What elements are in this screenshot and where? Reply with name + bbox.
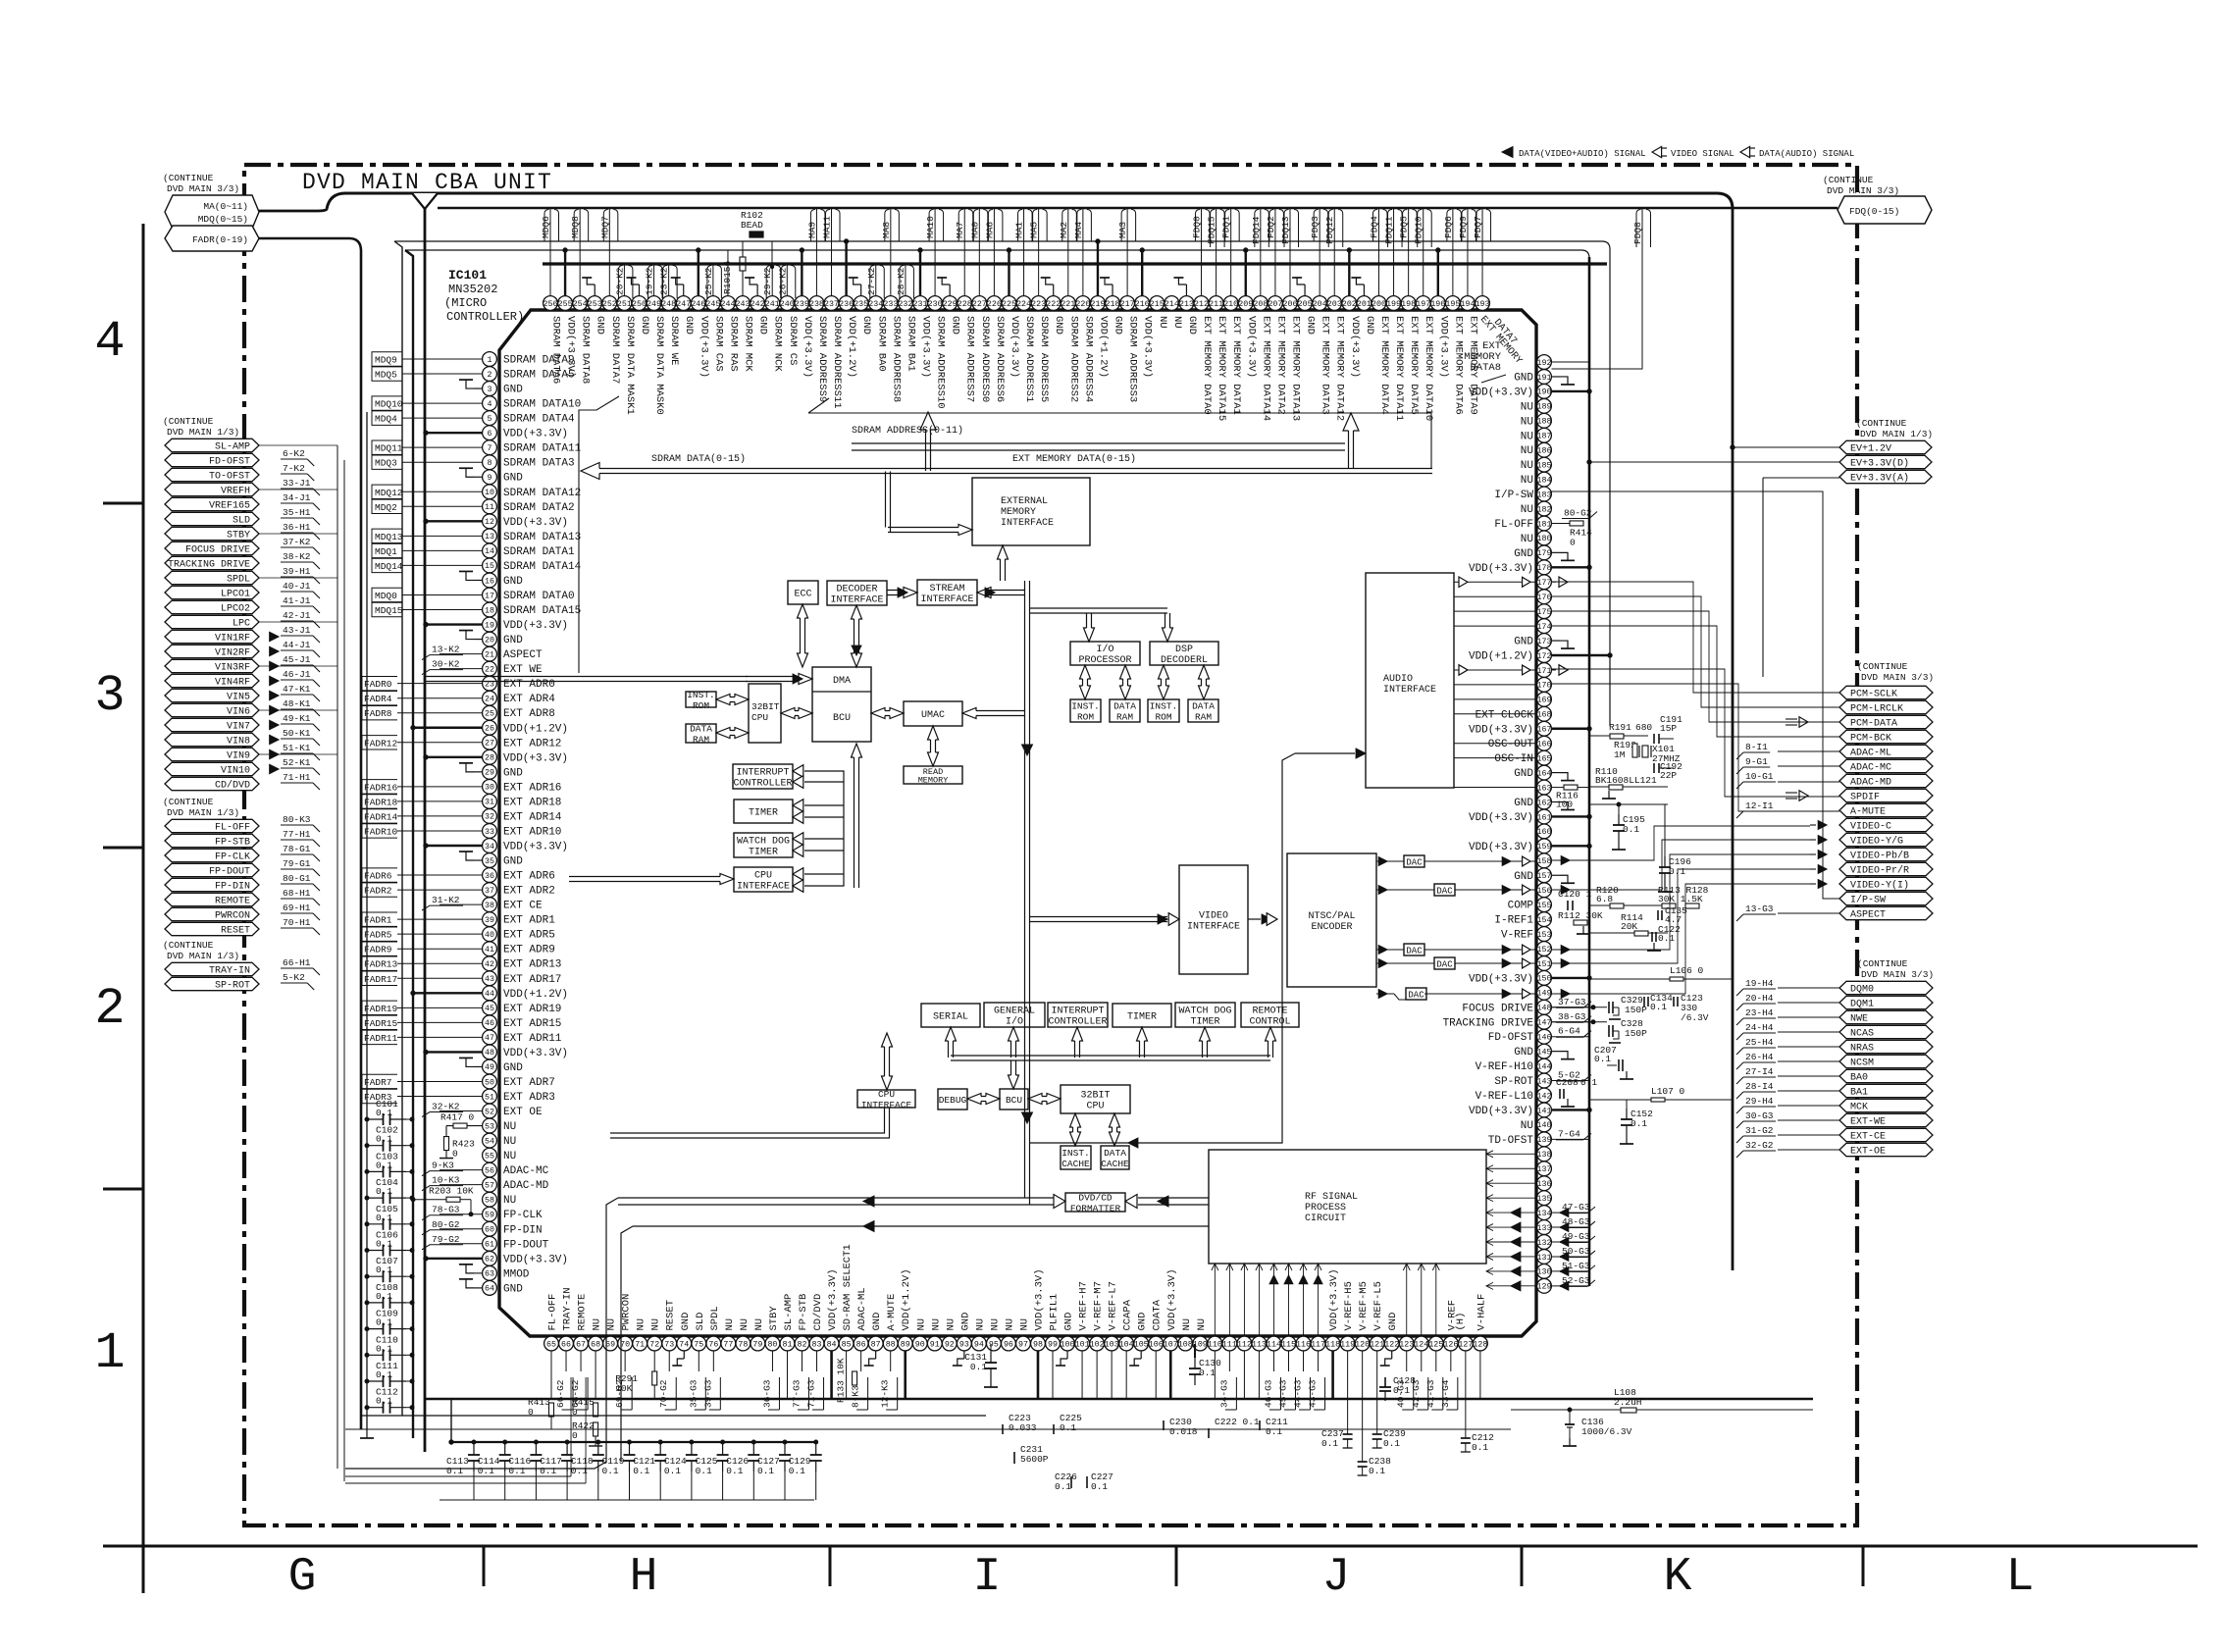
IC101 pin 106 CDATA [1149,1299,1164,1399]
svg-text:NU: NU [1521,1120,1533,1132]
resistor R423 0 (pin54) [440,1137,475,1160]
block VIDEO INTERFACE [1179,865,1248,974]
svg-text:DVD MAIN CBA UNIT: DVD MAIN CBA UNIT [302,170,552,195]
svg-text:DATA(AUDIO) SIGNAL: DATA(AUDIO) SIGNAL [1759,149,1854,159]
left flag SPDL [165,566,320,586]
svg-text:NU: NU [974,1318,986,1331]
svg-text:VDD(+1.2V): VDD(+1.2V) [901,1268,912,1330]
bus arrow EXT MEM IF bottom [998,545,1009,581]
svg-text:89: 89 [901,1340,910,1349]
IC101 pin 43 EXT ADR17 [362,971,561,986]
IC101 pin 120 V-REF-M5 [1355,1281,1370,1399]
svg-text:9: 9 [488,474,492,483]
svg-text:3: 3 [488,386,492,394]
IC101 pin 65 FL-OFF [544,1294,559,1399]
capacitor C207 0.1 [1594,1045,1633,1079]
left flag RESET [165,917,320,937]
svg-text:PCM-BCK: PCM-BCK [1850,734,1891,745]
svg-text:23-K2: 23-K2 [659,267,670,295]
IC101 pin 229 GND [937,278,961,335]
svg-text:SDRAM DATA MASK1: SDRAM DATA MASK1 [624,316,636,415]
svg-text:ADAC-MD: ADAC-MD [503,1180,549,1192]
svg-text:27-I4: 27-I4 [1745,1066,1774,1077]
svg-text:VIN3RF: VIN3RF [215,663,250,674]
wires NTSC/PAL to DACs and pins [1376,856,1536,1000]
svg-text:ADAC-ML: ADAC-ML [856,1287,868,1330]
wire PCM-BCK [1552,626,1840,737]
svg-text:24-H4: 24-H4 [1745,1022,1774,1033]
capacitor C211 0.1 [1260,1417,1288,1437]
svg-text:189: 189 [1537,403,1552,412]
svg-text:GND: GND [1186,316,1198,335]
svg-text:TRAY-IN: TRAY-IN [209,966,250,977]
resistor R120 6.8 [1589,885,1668,908]
svg-text:DQM1: DQM1 [1850,1000,1874,1010]
capacitor C238 0.1 [1358,1399,1391,1476]
svg-text:218: 218 [1106,300,1120,309]
oscillator R191 680 [1589,722,1652,739]
svg-text:VIDEO SIGNAL: VIDEO SIGNAL [1671,149,1734,159]
svg-text:G: G [288,1551,317,1604]
svg-text:117: 117 [1311,1340,1325,1349]
svg-text:0.1: 0.1 [970,1362,987,1372]
svg-text:TIMER: TIMER [749,808,778,819]
capacitor C223 0.033 [998,1413,1037,1434]
svg-text:65: 65 [546,1340,556,1349]
IC101 pin 181 FL-OFF [1494,516,1551,531]
svg-text:CONTROLLER: CONTROLLER [1048,1017,1107,1028]
svg-text:78-G1: 78-G1 [283,844,311,854]
right flag DQM1 [1736,993,1933,1010]
svg-text:45-G3: 45-G3 [1278,1379,1289,1408]
IC101 pin 122 GND [1380,1313,1400,1366]
block DATA RAM c [1188,699,1218,723]
svg-text:DATA: DATA [690,724,712,735]
svg-text:25-H4: 25-H4 [1745,1037,1774,1048]
svg-text:MDQ6: MDQ6 [541,216,551,238]
svg-text:SDRAM MCK: SDRAM MCK [743,316,754,372]
IC101 pin 116 (wire) [1293,1336,1311,1410]
svg-text:123: 123 [1399,1340,1414,1349]
svg-text:TD-OFST: TD-OFST [1488,1135,1534,1147]
svg-text:217: 217 [1120,300,1135,309]
svg-text:131: 131 [1537,1254,1552,1263]
IC101 pin 21 ASPECT [422,645,543,662]
svg-text:SDRAM ADDRESS5: SDRAM ADDRESS5 [1038,316,1050,402]
block DAC3 [1404,944,1424,956]
svg-text:1M: 1M [1614,749,1626,760]
svg-text:EXT MEMORY DATA14: EXT MEMORY DATA14 [1260,316,1271,421]
IC101 pin 160 (wire) [1537,824,1552,839]
wire PCM-DATA [1552,611,1840,722]
svg-text:NRAS: NRAS [1850,1044,1874,1055]
svg-text:GND: GND [1305,316,1317,335]
svg-text:SDRAM DATA9: SDRAM DATA9 [503,355,575,367]
svg-text:47-G3: 47-G3 [1562,1202,1590,1213]
IC101 pin 139 TD-OFST [1488,1128,1591,1147]
svg-text:0.1: 0.1 [571,1466,588,1476]
IC101 pin 34 VDD(+3.3V) [424,839,568,853]
IC101 pin 142 V-REF-L10 [1475,1088,1552,1103]
wire DQM flag codes [1778,988,1839,1150]
svg-text:VDD(+3.3V): VDD(+3.3V) [503,1048,568,1059]
svg-text:19-H4: 19-H4 [1745,978,1774,989]
svg-text:0.1: 0.1 [696,1466,712,1476]
svg-text:BK1608LL121: BK1608LL121 [1595,775,1657,786]
svg-text:NU: NU [503,1121,516,1133]
IC101 pin 223 SDRAM ADDRESS5 [1029,209,1051,402]
IC101 pin 55 NU [483,1148,517,1162]
svg-text:7-G4: 7-G4 [1558,1128,1580,1139]
svg-text:FADR17: FADR17 [364,974,397,985]
inductor R110 BK1608LL121 [1589,766,1668,799]
svg-text:GND: GND [1514,871,1533,883]
svg-text:VDD(+3.3V): VDD(+3.3V) [503,429,568,440]
svg-text:EXT CE: EXT CE [503,901,543,912]
svg-text:150P: 150P [1625,1028,1647,1039]
svg-text:INTERRUPT: INTERRUPT [736,768,789,779]
svg-text:VIDEO-Y/G: VIDEO-Y/G [1850,836,1903,848]
svg-text:93: 93 [959,1340,969,1349]
svg-text:VDD(+3.3V): VDD(+3.3V) [503,841,568,852]
IC101 pin 133 (wire) [1537,1216,1595,1234]
svg-text:100: 100 [1556,800,1573,810]
svg-text:SDRAM ADDRESS9: SDRAM ADDRESS9 [816,316,828,402]
svg-text:197: 197 [1416,300,1430,309]
IC101 pin 90 NU [912,1318,927,1351]
svg-text:FADR6: FADR6 [364,871,392,882]
svg-text:242: 242 [751,300,765,309]
svg-text:INTERFACE: INTERFACE [830,595,883,606]
svg-text:SDRAM ADDRESS4: SDRAM ADDRESS4 [1082,316,1094,402]
IC101 pin 23 EXT ADR0 [362,676,555,691]
IC101 pin 84 VDD(+3.3V) [824,1268,839,1399]
IC101 pin 249 SDRAM DATA MASK0 [645,265,666,415]
block INTERRUPT CONTROLLER a [733,764,793,790]
IC101 pin 248 SDRAM WE [659,265,681,365]
vertical bus x=374 (gnd rail) [360,412,374,1438]
svg-text:121: 121 [1370,1340,1384,1349]
svg-text:99: 99 [1048,1340,1058,1349]
svg-text:0.1: 0.1 [376,1343,392,1354]
svg-text:I/P-SW: I/P-SW [1850,895,1886,906]
svg-text:R10156: R10156 [722,260,733,294]
svg-text:67: 67 [576,1340,586,1349]
svg-text:220: 220 [1075,300,1090,309]
svg-text:26: 26 [485,725,494,734]
svg-text:216: 216 [1135,300,1150,309]
capacitor C134 0.1 [1644,993,1673,1012]
svg-text:199: 199 [1386,300,1401,309]
IC101 pin 28 VDD(+3.3V) [424,749,568,764]
svg-text:83: 83 [812,1340,822,1349]
svg-text:133: 133 [1537,1224,1552,1233]
svg-text:ADAC-MD: ADAC-MD [1850,778,1891,789]
svg-text:9-G1: 9-G1 [1745,756,1768,767]
IC101 pin 121 V-REF-L5 [1370,1281,1384,1399]
svg-text:FDQ10: FDQ10 [1414,216,1424,244]
svg-text:0.1: 0.1 [1266,1426,1282,1437]
svg-text:FDQ12: FDQ12 [1324,216,1335,244]
capacitor C119 0.1 [602,1440,636,1500]
svg-text:95: 95 [989,1340,999,1349]
svg-text:84: 84 [827,1340,837,1349]
svg-text:VDD(+3.3V): VDD(+3.3V) [503,517,568,529]
inductor L106 0 [1589,965,1733,981]
svg-text:CONTROLLER): CONTROLLER) [446,310,524,324]
svg-text:153: 153 [1537,931,1552,940]
svg-text:SPDL: SPDL [227,575,250,586]
svg-text:FP-DOUT: FP-DOUT [503,1239,549,1251]
IC101 pin 250 GND [626,278,650,335]
svg-text:70: 70 [620,1340,630,1349]
svg-text:80: 80 [767,1340,777,1349]
block EXTERNAL MEMORY INTERFACE [972,478,1090,545]
svg-text:10: 10 [485,489,494,497]
svg-text:254: 254 [573,300,588,309]
svg-text:SDRAM CAS: SDRAM CAS [712,316,724,372]
svg-text:VDD(+3.3V): VDD(+3.3V) [920,316,932,378]
FDQ8 wire pin192 [1552,209,1651,369]
wires pins 168-163 to audio [1454,714,1536,788]
svg-text:103: 103 [1105,1340,1119,1349]
svg-text:NU: NU [503,1136,516,1148]
svg-text:56: 56 [485,1166,494,1175]
svg-text:10-G1: 10-G1 [1745,771,1774,782]
svg-text:FADR5: FADR5 [364,930,392,941]
svg-text:GND: GND [1053,316,1064,335]
svg-text:(CONTINUE: (CONTINUE [163,797,214,807]
svg-text:8: 8 [488,459,492,468]
bus BCU b up arrow [1009,1060,1019,1089]
svg-text:0.1: 0.1 [1472,1442,1488,1453]
svg-text:147: 147 [1537,1019,1552,1028]
svg-text:1: 1 [94,1324,125,1382]
IC101 pin 102 V-REF-M7 [1090,1281,1105,1399]
IC101 pin 87 GND [864,1313,884,1366]
row label 2 [94,980,125,1038]
IC101 pin 66 TRAY-IN [555,1287,574,1410]
IC101 pin 172 VDD(+1.2V) [1469,648,1612,663]
IC101 pin 255 VDD(+3.3V) [558,248,577,378]
svg-text:FADR0: FADR0 [364,679,392,690]
block UMAC [904,701,962,726]
right flag A-MUTE [1736,800,1933,818]
svg-text:248: 248 [661,300,676,309]
IC101 pin 235 GND [849,278,873,335]
svg-text:0.1: 0.1 [1060,1422,1076,1433]
IC101 pin 213 GND [1173,278,1198,335]
IC101 pin 89 VDD(+1.2V) [898,1268,912,1399]
left flag FOCUS DRIVE [165,537,320,556]
IC101 pin 150 VDD(+3.3V) [1469,971,1591,986]
block SERIAL [921,1004,980,1027]
IC101 pin 49 GND [459,1058,523,1074]
wire EV+1.2V flag [1731,445,1839,449]
svg-text:0.1: 0.1 [376,1291,392,1302]
svg-text:(CONTINUE: (CONTINUE [1856,418,1907,429]
video to ntsc arrow [1248,913,1277,926]
svg-text:11: 11 [485,503,494,512]
svg-text:59: 59 [485,1212,494,1220]
IC101 pin 242 GND [745,278,769,335]
svg-text:LPCO1: LPCO1 [221,590,250,600]
svg-text:EXT ADR10: EXT ADR10 [503,826,561,838]
column label I [973,1551,1002,1604]
svg-text:36-G3: 36-G3 [761,1379,772,1408]
svg-text:MDQ4: MDQ4 [375,414,397,425]
block I/O PROCESSOR [1070,642,1140,666]
svg-text:GND: GND [1514,798,1533,809]
svg-text:20: 20 [485,636,494,645]
svg-text:51-K1: 51-K1 [283,743,311,753]
svg-text:DVD MAIN 1/3): DVD MAIN 1/3) [167,807,239,818]
svg-text:CIRCUIT: CIRCUIT [1305,1213,1346,1224]
svg-text:0.018: 0.018 [1169,1426,1198,1437]
svg-text:SERIAL: SERIAL [933,1012,968,1023]
svg-text:INST.: INST. [687,690,715,700]
svg-text:EXT ADR5: EXT ADR5 [503,930,555,942]
svg-text:246: 246 [691,300,705,309]
svg-text:30-K2: 30-K2 [432,659,460,670]
svg-text:EXT MEMORY DATA13: EXT MEMORY DATA13 [1290,316,1302,421]
svg-text:137: 137 [1537,1165,1552,1174]
svg-text:EXT ADR4: EXT ADR4 [503,694,555,705]
svg-text:STREAM: STREAM [929,584,964,594]
svg-text:69-H1: 69-H1 [283,903,311,913]
IC101 pin 147 TRACKING DRIVE [1443,1011,1591,1030]
svg-text:MDQ5: MDQ5 [375,370,397,381]
svg-text:NU: NU [1521,401,1533,413]
IC101 pin 169 (wire) [1537,692,1552,706]
bus CPU to BCU [781,708,812,719]
IC101 pin 243 SDRAM MCK [736,250,754,372]
IC101 pin 151 (wire) [1537,956,1552,971]
title DVD MAIN CBA UNIT [302,170,552,195]
resistor R10156 (pin244) [722,257,746,294]
bus DVD/CD FORMATTER right to RF [1125,1195,1209,1209]
note continue dvd main 3/3 (top left) [163,173,239,194]
svg-text:EXT MEMORY DATA(0-15): EXT MEMORY DATA(0-15) [1012,453,1136,465]
IC101 pin 138 (wire) [1537,1147,1552,1162]
svg-text:192: 192 [1537,359,1552,368]
svg-text:128: 128 [1473,1340,1487,1349]
capacitor C124 0.1 [664,1440,698,1500]
svg-text:127: 127 [1458,1340,1473,1349]
svg-text:55: 55 [485,1152,494,1161]
svg-text:37-G3: 37-G3 [1558,997,1586,1007]
svg-text:ADAC-ML: ADAC-ML [1850,749,1891,759]
svg-text:20K: 20K [1621,921,1637,932]
IC101 pin 100 GND [1056,1313,1075,1366]
svg-text:SDRAM CS: SDRAM CS [787,316,799,365]
svg-text:VDD(+1.2V): VDD(+1.2V) [503,723,568,735]
wire I/P-SW pin183 to flag [1552,491,1840,899]
IC101 pin 63 MMOD [483,1265,530,1280]
svg-text:140: 140 [1537,1121,1552,1130]
svg-text:GND: GND [503,576,523,588]
svg-text:2: 2 [94,980,125,1038]
left flag VIN2RF [165,640,320,659]
IC101 pin 159 VDD(+3.3V) [1469,839,1591,853]
svg-text:VDD(+3.3V): VDD(+3.3V) [1469,973,1533,985]
capacitor C114 0.1 [478,1440,511,1500]
svg-text:SDRAM BA1: SDRAM BA1 [905,316,916,372]
svg-text:DVD MAIN 1/3): DVD MAIN 1/3) [1860,429,1933,439]
capacitor C227 0.1 [1087,1471,1113,1492]
left flag STBY [165,522,320,542]
svg-text:118: 118 [1325,1340,1340,1349]
svg-text:0.1: 0.1 [376,1134,392,1145]
IC101 pin 131 (wire) [1537,1246,1595,1264]
svg-text:0.1: 0.1 [1199,1368,1216,1378]
legend video signal [1652,146,1734,159]
IC101 pin 41 EXT ADR9 [362,942,555,956]
capacitor C136 1000/6.3V [1563,1408,1632,1446]
svg-text:LPCO2: LPCO2 [221,604,250,615]
IC101 pin 180 NU [1521,531,1552,545]
svg-text:CACHE: CACHE [1061,1159,1090,1169]
svg-text:194: 194 [1460,300,1475,309]
svg-text:88: 88 [886,1340,896,1349]
note continue dvd main 1/3 (group B) [163,416,239,438]
svg-text:25: 25 [485,710,494,719]
svg-text:227: 227 [972,300,987,309]
IC101 pin 221 SDRAM ADDRESS2 [1059,209,1080,402]
bus vbus to I/O + DSP [1030,608,1173,642]
IC101 pin 244 SDRAM RAS [720,250,739,372]
svg-text:20-K2: 20-K2 [614,267,625,295]
inductor L108 2.2uH [1511,1387,1813,1413]
svg-text:FADR19: FADR19 [364,1004,398,1014]
IC101 pin 50 EXT ADR7 [362,1074,555,1089]
svg-text:COMP: COMP [1508,901,1534,912]
capacitor C123 330/6.3V [1674,993,1709,1023]
IC101 pin 228 SDRAM ADDRESS7 [955,209,976,402]
svg-text:TO-OFST: TO-OFST [209,472,250,483]
svg-text:J: J [1322,1551,1351,1604]
svg-text:0.1: 0.1 [789,1466,805,1476]
svg-text:NU: NU [503,1195,516,1207]
IC101 pin 73 RESET [658,1300,677,1410]
svg-text:EXT-CE: EXT-CE [1850,1132,1886,1143]
svg-text:44-G3: 44-G3 [1293,1379,1304,1408]
svg-text:38-G3: 38-G3 [1558,1011,1586,1022]
IC101 pin 109 NU [1193,1318,1208,1351]
wire ADAC flags [1778,751,1839,913]
right flag VIDEO-Y(I) [1810,877,1933,891]
IC101 pin 227 SDRAM ADDRESS0 [969,209,991,402]
svg-text:SDRAM DATA14: SDRAM DATA14 [503,561,582,573]
IC101 pin 207 EXT MEMORY DATA2 [1266,209,1287,415]
svg-text:146: 146 [1537,1034,1552,1043]
svg-text:47-K1: 47-K1 [283,684,311,695]
capacitor C329 wire pins 148/147 [1552,1006,1608,1024]
bus ECC up/down arrows [798,604,808,667]
svg-text:223: 223 [1031,300,1046,309]
svg-text:226: 226 [987,300,1002,309]
svg-text:35-G3: 35-G3 [688,1379,699,1408]
svg-text:V-REF-L7: V-REF-L7 [1108,1281,1119,1330]
svg-text:VDD(+3.3V): VDD(+3.3V) [565,316,577,378]
svg-text:EXT ADR18: EXT ADR18 [503,797,561,808]
IC101 pin 164 GND [1514,765,1575,780]
svg-text:UMAC: UMAC [921,710,945,721]
horizontal rail y=246 (+1.2V) [394,241,1610,726]
wire SPDIF [1552,669,1840,797]
svg-text:41: 41 [485,946,494,955]
svg-text:GND: GND [959,1313,971,1331]
